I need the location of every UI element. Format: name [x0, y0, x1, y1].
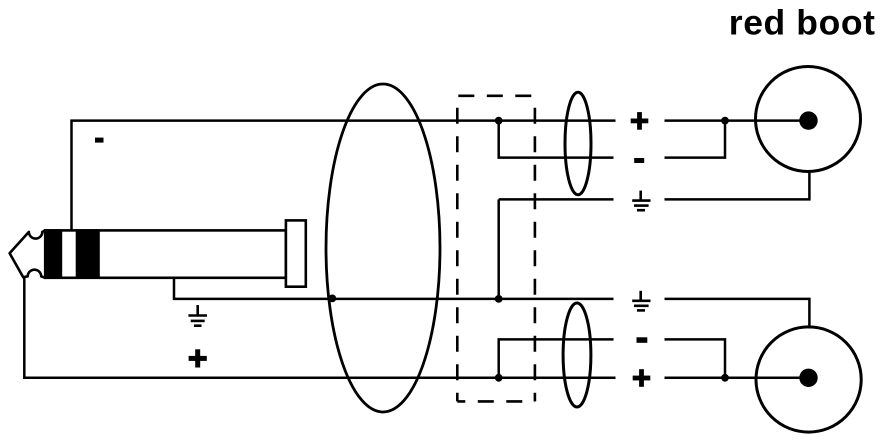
junction: bottom plus at splitter [495, 374, 503, 382]
RCA connector top (center pin) [799, 111, 817, 129]
label: plus (bottom channel) [633, 369, 651, 387]
junction: ground at cable ellipse [328, 295, 336, 303]
bottom channel coax ellipse [563, 303, 591, 407]
jack insulator band 2 [76, 229, 100, 279]
junction: top plus near RCA [721, 117, 729, 125]
wire: bottom plus line right segment to RCA center [665, 377, 809, 380]
RCA connector bottom (center pin) [799, 369, 817, 387]
ground symbol top channel [632, 191, 650, 211]
junction: bottom plus near RCA [721, 374, 729, 382]
wire: sleeve to ground bus [174, 278, 614, 299]
junction: top plus at splitter [495, 117, 503, 125]
ground symbol under jack sleeve [188, 305, 207, 326]
RCA connector top (shell) [756, 67, 861, 172]
jack collar [286, 220, 306, 286]
wire: top minus branch right [665, 121, 726, 158]
top channel coax ellipse [565, 92, 591, 195]
splitter boundary dashed box: top edge [457, 95, 535, 98]
wire: tip contact to bottom plus line (left segment) [24, 274, 615, 378]
wire: ground vertical link [497, 199, 500, 299]
ground symbol bottom channel [632, 291, 650, 311]
wire: top ground segment right to top RCA shell [665, 171, 810, 200]
cable bundle ellipse [326, 84, 440, 412]
RCA connector bottom (shell) [756, 327, 861, 432]
wire: bottom minus branch left [499, 339, 614, 377]
wire: top ground segment left [499, 198, 614, 201]
label: minus (top channel) [634, 158, 644, 163]
wire: top minus branch left [499, 121, 614, 158]
stereo jack plug tip (arrow) [10, 230, 46, 277]
svg-text:red boot: red boot [729, 3, 876, 43]
wire: bottom ground segment right to bottom RCA shell [665, 299, 810, 329]
label: minus (bottom channel) [637, 337, 648, 343]
wire: top plus line right segment to RCA center [665, 119, 809, 122]
label: minus (left, near jack) [95, 138, 104, 143]
wire: bottom minus branch right [665, 339, 726, 377]
wire: ring contact to top plus line (left segment) [72, 121, 616, 231]
splitter boundary dashed box: right edge [534, 96, 537, 402]
stereo jack plug body [45, 230, 286, 277]
junction: ground at splitter [495, 295, 503, 303]
jack insulator band 1 [45, 229, 62, 279]
splitter boundary dashed box: left edge [456, 96, 459, 402]
label: plus (left, under jack) [189, 349, 207, 367]
label: plus (top channel) [631, 112, 649, 130]
splitter boundary dashed box: bottom edge [457, 400, 535, 403]
